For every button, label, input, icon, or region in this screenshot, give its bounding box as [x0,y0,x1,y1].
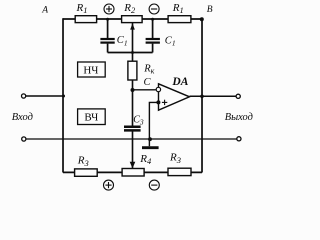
svg-text:C: C [144,77,152,88]
svg-text:DA: DA [171,76,188,88]
svg-text:B: B [207,5,213,15]
svg-text:ВЧ: ВЧ [84,112,98,124]
svg-text:A: A [41,5,48,15]
svg-text:Вход: Вход [12,112,33,123]
svg-text:Выход: Выход [225,112,253,123]
svg-text:НЧ: НЧ [83,65,98,77]
